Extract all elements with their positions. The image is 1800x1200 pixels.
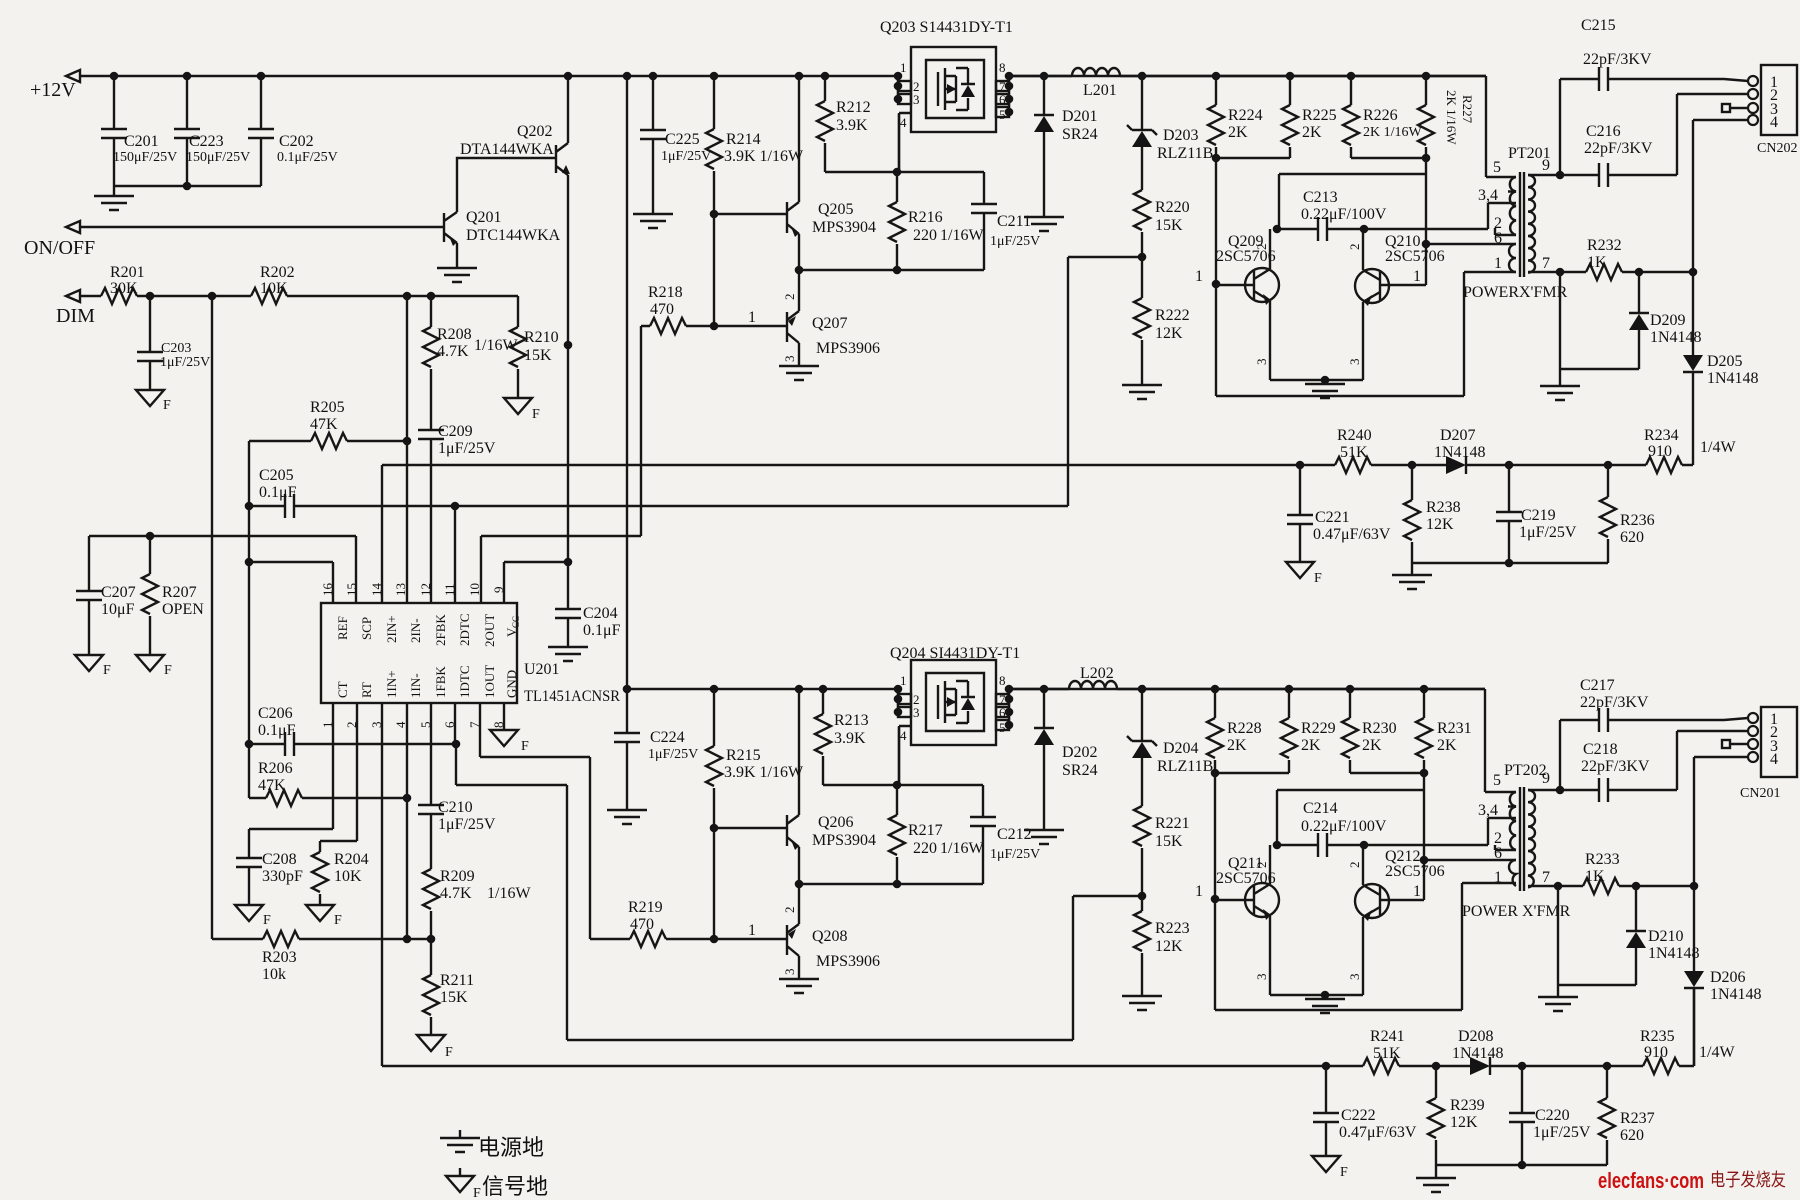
svg-text:3: 3: [1347, 974, 1362, 981]
wire CN201 pin4 chain: [1690, 757, 1748, 890]
svg-text:1μF/25V: 1μF/25V: [990, 234, 1040, 249]
svg-text:9: 9: [1542, 770, 1550, 787]
svg-text:1IN+: 1IN+: [384, 670, 399, 698]
svg-text:R204: R204: [334, 851, 369, 868]
svg-text:15: 15: [344, 583, 359, 596]
ground power (R239): [1416, 1178, 1456, 1192]
wire pin10 2OUT to R218: [481, 326, 641, 603]
svg-text:电源地: 电源地: [478, 1135, 544, 1160]
svg-text:4: 4: [393, 721, 408, 728]
svg-text:R236: R236: [1620, 512, 1655, 529]
resistor R239 12K: [1428, 1066, 1485, 1165]
svg-text:R223: R223: [1155, 920, 1190, 937]
wire R220/R222 node: [1138, 253, 1147, 262]
svg-text:R221: R221: [1155, 815, 1190, 832]
svg-text:1: 1: [900, 60, 907, 75]
svg-text:L201: L201: [1083, 82, 1117, 99]
svg-text:3: 3: [782, 969, 797, 976]
svg-text:1K: 1K: [1587, 254, 1607, 271]
diode D201 SR24: [1034, 76, 1098, 217]
svg-text:D203: D203: [1163, 127, 1199, 144]
transformer PT202: [1462, 689, 1571, 920]
svg-text:MPS3904: MPS3904: [812, 219, 876, 236]
svg-text:13: 13: [393, 583, 408, 596]
ground power (C225): [633, 214, 673, 228]
svg-text:12K: 12K: [1426, 516, 1454, 533]
svg-text:1/16W: 1/16W: [940, 227, 984, 244]
wire pin9 Vcc: [504, 558, 572, 603]
svg-text:C221: C221: [1315, 509, 1350, 526]
resistor R230 2K: [1342, 689, 1397, 773]
resistor R240 51K: [1335, 427, 1372, 473]
resistor R204 10K: [312, 851, 369, 905]
svg-text:C206: C206: [258, 705, 293, 722]
svg-text:22pF/3KV: 22pF/3KV: [1583, 51, 1652, 68]
svg-text:C211: C211: [997, 213, 1031, 230]
svg-text:1N4148: 1N4148: [1707, 370, 1759, 387]
resistor R210 15K: [510, 296, 559, 398]
wire R218 node to Q207 base: [714, 309, 787, 326]
ground power (C224): [607, 810, 647, 824]
svg-text:REF: REF: [335, 616, 350, 640]
resistor R217 220 1/16W: [889, 785, 984, 884]
transistor Q202 DTA144WKA: [460, 76, 570, 175]
svg-text:7: 7: [1542, 869, 1550, 886]
svg-text:12K: 12K: [1450, 1114, 1478, 1131]
svg-text:1N4148: 1N4148: [1452, 1045, 1504, 1062]
svg-text:22pF/3KV: 22pF/3KV: [1581, 758, 1650, 775]
ground signal F (C203): [136, 390, 171, 413]
svg-text:3: 3: [1347, 359, 1362, 366]
svg-text:R206: R206: [258, 760, 293, 777]
ground power (R222): [1122, 385, 1162, 399]
transistor Q208 MPS3906: [782, 884, 880, 979]
resistor R205 47K: [249, 399, 411, 449]
svg-text:POWER X'FMR: POWER X'FMR: [1462, 903, 1571, 920]
capacitor C218 22pF/3KV: [1560, 731, 1748, 802]
svg-text:1/16W: 1/16W: [487, 885, 531, 902]
svg-text:C208: C208: [262, 851, 297, 868]
transistor Q209 2SC5706: [1195, 229, 1279, 380]
capacitor C223: [174, 76, 250, 186]
svg-text:R229: R229: [1301, 720, 1336, 737]
svg-text:1: 1: [1494, 869, 1502, 886]
svg-text:2FBK: 2FBK: [433, 614, 448, 646]
svg-text:R205: R205: [310, 399, 345, 416]
resistor R207 OPEN: [142, 532, 204, 655]
svg-text:7: 7: [1542, 255, 1550, 272]
svg-text:D205: D205: [1707, 353, 1743, 370]
resistor R234 910 1/4W: [1644, 427, 1736, 473]
wire gate node (R212/R216/C211/pin4): [825, 114, 984, 204]
svg-text:R238: R238: [1426, 499, 1461, 516]
svg-text:1N4148: 1N4148: [1434, 444, 1486, 461]
svg-text:R237: R237: [1620, 1110, 1655, 1127]
svg-text:MPS3906: MPS3906: [816, 953, 880, 970]
svg-text:9: 9: [1542, 157, 1550, 174]
resistor R231 2K: [1416, 689, 1472, 773]
svg-text:1IN-: 1IN-: [408, 673, 423, 698]
svg-text:+12V: +12V: [30, 79, 76, 101]
svg-text:0.22μF/100V: 0.22μF/100V: [1301, 818, 1387, 835]
ground power (R223): [1122, 996, 1162, 1010]
resistor R233 1K: [1554, 851, 1694, 894]
svg-text:Q207: Q207: [812, 315, 848, 332]
svg-text:D208: D208: [1458, 1028, 1494, 1045]
ground power (D201): [1024, 217, 1064, 231]
diode D208 1N4148: [1452, 1028, 1504, 1075]
wire R221/R223 node: [1138, 892, 1147, 901]
capacitor C211 1uF/25V: [971, 204, 1040, 249]
svg-text:5: 5: [999, 107, 1006, 122]
svg-text:2SC5706: 2SC5706: [1216, 870, 1276, 887]
capacitor C224: [614, 689, 698, 810]
svg-text:1/4W: 1/4W: [1699, 1044, 1735, 1061]
svg-text:150μF/25V: 150μF/25V: [186, 150, 250, 165]
svg-text:6: 6: [1494, 230, 1502, 247]
resistor R202 10K: [251, 264, 295, 304]
wire +12V rail: [80, 72, 1486, 81]
svg-text:10k: 10k: [262, 966, 286, 983]
wire pin5 1FBK vertical: [430, 703, 432, 869]
svg-text:0.47μF/63V: 0.47μF/63V: [1339, 1124, 1417, 1141]
svg-text:470: 470: [630, 916, 654, 933]
wire pin1 CT to C208: [249, 703, 333, 858]
svg-text:Q204 SI4431DY-T1: Q204 SI4431DY-T1: [890, 645, 1020, 662]
ground signal F (C208): [235, 905, 271, 928]
svg-text:R234: R234: [1644, 427, 1679, 444]
wire cap bottoms to ground: [114, 182, 261, 196]
resistor R223 12K: [1134, 896, 1190, 996]
resistor R221 15K: [1134, 806, 1190, 896]
wire bottom feedback bus: [1322, 988, 1694, 1070]
svg-text:R217: R217: [908, 822, 943, 839]
svg-text:R207: R207: [162, 584, 197, 601]
capacitor C205 0.1uF (on 2DTC bus): [259, 467, 297, 518]
svg-text:R208: R208: [437, 326, 472, 343]
wire PT201 pin7 to ground: [1560, 272, 1639, 386]
wire 2IN- pin13 vertical: [406, 296, 408, 603]
svg-text:1: 1: [1195, 268, 1203, 285]
svg-text:SCP: SCP: [359, 617, 374, 640]
svg-text:2K: 2K: [1228, 124, 1248, 141]
resistor R211 15K: [423, 939, 474, 1035]
svg-text:R227: R227: [1460, 95, 1475, 124]
svg-text:1μF/25V: 1μF/25V: [648, 747, 698, 762]
svg-text:D206: D206: [1710, 969, 1746, 986]
capacitor C204 0.1uF: [555, 562, 621, 647]
resistor R226 2K 1/16W: [1343, 76, 1423, 158]
svg-text:3: 3: [913, 92, 920, 107]
resistor R227 2K 1/16W: [1418, 76, 1475, 158]
svg-text:C205: C205: [259, 467, 294, 484]
resistor R235 910 1/4W: [1640, 1028, 1735, 1074]
ground power (D202): [1024, 830, 1064, 844]
svg-text:TL1451ACNSR: TL1451ACNSR: [524, 688, 620, 705]
U201 pin numbers bottom: [320, 721, 506, 728]
svg-text:D207: D207: [1440, 427, 1476, 444]
resistor R216 220 1/16W: [889, 172, 984, 270]
ground signal F (R207): [136, 655, 172, 678]
wire PT202 pin7 to ground: [1558, 886, 1636, 997]
wire L202 to PT202 corner: [1117, 688, 1485, 690]
svg-text:51K: 51K: [1373, 1045, 1401, 1062]
resistor R212 3.9K: [817, 76, 871, 172]
svg-text:F: F: [263, 913, 271, 928]
svg-text:5: 5: [1493, 772, 1501, 789]
svg-text:D204: D204: [1163, 740, 1199, 757]
resistor R206 47K: [249, 760, 411, 806]
transistor Q203 SI4431DY-T1 (p-MOSFET module): [880, 19, 1013, 135]
capacitor C215 22pF/3KV: [1556, 17, 1748, 179]
ground power (C201/C223/C202): [94, 196, 134, 210]
svg-text:0.1μF: 0.1μF: [259, 484, 297, 501]
svg-text:C220: C220: [1535, 1107, 1570, 1124]
resistor R241 51K: [1363, 1028, 1405, 1074]
svg-text:2: 2: [1254, 862, 1269, 869]
svg-text:Q205: Q205: [818, 201, 854, 218]
capacitor C208 330pF: [236, 851, 303, 905]
wire R228/R229 bottoms: [1211, 769, 1289, 778]
resistor R228 2K: [1207, 689, 1262, 773]
U201 top pin labels: [335, 614, 521, 648]
svg-text:F: F: [1340, 1165, 1348, 1180]
svg-text:Q201: Q201: [466, 209, 502, 226]
svg-text:2SC5706: 2SC5706: [1385, 863, 1445, 880]
ground power (Q209/Q210 emitters): [1305, 384, 1345, 398]
svg-text:0.1μF/25V: 0.1μF/25V: [277, 150, 338, 165]
svg-text:C215: C215: [1581, 17, 1616, 34]
svg-text:1μF/25V: 1μF/25V: [438, 816, 496, 833]
svg-text:3,4: 3,4: [1478, 187, 1498, 204]
diode D206 1N4148: [1684, 886, 1762, 1066]
svg-text:4: 4: [900, 115, 907, 130]
svg-text:DTA144WKA: DTA144WKA: [460, 141, 554, 158]
svg-text:1: 1: [748, 309, 756, 326]
resistor R236 620: [1600, 465, 1655, 563]
svg-text:F: F: [163, 398, 171, 413]
svg-text:C225: C225: [665, 131, 700, 148]
wire Q204 pin4 gate lead: [898, 748, 900, 785]
svg-text:R226: R226: [1363, 107, 1398, 124]
svg-text:D209: D209: [1650, 312, 1686, 329]
svg-text:0.47μF/63V: 0.47μF/63V: [1313, 526, 1391, 543]
svg-text:2IN-: 2IN-: [408, 618, 423, 643]
svg-text:GND: GND: [504, 670, 519, 698]
svg-text:R213: R213: [834, 712, 869, 729]
resistor R208 4.7K 1/16W: [423, 296, 518, 430]
svg-text:C214: C214: [1303, 800, 1338, 817]
transistor Q212 2SC5706: [1347, 845, 1445, 995]
resistor R201 30K: [80, 264, 150, 304]
svg-text:150μF/25V: 150μF/25V: [113, 150, 177, 165]
svg-text:2IN+: 2IN+: [384, 615, 399, 643]
svg-text:10: 10: [467, 583, 482, 596]
svg-text:1/4W: 1/4W: [1700, 439, 1736, 456]
wire 1IN- pin4 vertical: [403, 703, 412, 943]
wire lower channel rail: [623, 685, 1485, 694]
svg-text:3.9K: 3.9K: [834, 730, 866, 747]
svg-text:1μF/25V: 1μF/25V: [160, 355, 210, 370]
svg-text:15K: 15K: [524, 347, 552, 364]
svg-text:R212: R212: [836, 99, 871, 116]
svg-text:DIM: DIM: [56, 305, 95, 327]
svg-text:12: 12: [418, 583, 433, 596]
svg-text:elecfans·com: elecfans·com: [1598, 1168, 1704, 1193]
svg-text:8: 8: [999, 60, 1006, 75]
svg-text:C216: C216: [1586, 123, 1621, 140]
svg-text:POWERX'FMR: POWERX'FMR: [1463, 284, 1568, 301]
node DIM input arrow: [56, 290, 95, 327]
svg-text:R232: R232: [1587, 237, 1622, 254]
wire Q211 base chain to PT202 pin1: [1211, 773, 1516, 1010]
transformer PT201: [1463, 76, 1568, 301]
svg-text:910: 910: [1648, 443, 1672, 460]
svg-text:MPS3906: MPS3906: [816, 340, 880, 357]
svg-text:R228: R228: [1227, 720, 1262, 737]
capacitor C214 0.22uF/100V: [1273, 800, 1516, 857]
resistor R219 470: [590, 899, 714, 947]
resistor R224 2K: [1208, 76, 1263, 158]
svg-text:22pF/3KV: 22pF/3KV: [1580, 694, 1649, 711]
transistor Q205 MPS3904: [787, 76, 876, 270]
wire pin7 1OUT to R219: [480, 703, 590, 939]
svg-text:2K: 2K: [1227, 737, 1247, 754]
connector CN202: [1748, 65, 1797, 156]
svg-text:R215: R215: [726, 747, 761, 764]
wire R238/C219/R236 bottoms: [1412, 559, 1608, 575]
resistor R220 15K: [1134, 190, 1190, 257]
inductor L201: [1072, 68, 1120, 99]
svg-text:C209: C209: [438, 423, 473, 440]
wire Q211/Q212 emitter loop: [1270, 991, 1363, 1000]
wire R214 bottom node to Q205 base: [710, 210, 787, 331]
legend power ground symbol: [440, 1130, 544, 1160]
svg-text:R210: R210: [524, 329, 559, 346]
svg-text:CT: CT: [335, 681, 350, 698]
svg-text:C204: C204: [583, 605, 618, 622]
svg-text:3.9K 1/16W: 3.9K 1/16W: [724, 148, 804, 165]
svg-text:CC: CC: [511, 616, 521, 628]
wire ON/OFF to Q201 base: [80, 226, 444, 228]
svg-text:OPEN: OPEN: [162, 601, 204, 618]
svg-text:2SC5706: 2SC5706: [1385, 248, 1445, 265]
svg-text:F: F: [521, 739, 529, 754]
wire R219 node to Q208 base: [714, 922, 787, 939]
svg-text:4: 4: [1770, 751, 1778, 768]
ground power (PT201 pin7): [1540, 386, 1580, 400]
resistor R232 1K: [1556, 237, 1693, 280]
resistor R225 2K: [1282, 76, 1337, 158]
svg-text:1N4148: 1N4148: [1710, 986, 1762, 1003]
svg-text:10K: 10K: [260, 280, 288, 297]
svg-text:R202: R202: [260, 264, 295, 281]
capacitor C212 1uF/25V: [970, 817, 1040, 862]
svg-text:0.22μF/100V: 0.22μF/100V: [1301, 206, 1387, 223]
svg-text:R216: R216: [908, 209, 943, 226]
wire +12V to lower channel vertical: [626, 76, 628, 689]
svg-text:1DTC: 1DTC: [457, 666, 472, 699]
svg-text:1: 1: [1413, 883, 1421, 900]
svg-text:C217: C217: [1580, 677, 1615, 694]
svg-text:R211: R211: [440, 972, 474, 989]
transistor Q206 MPS3904: [787, 689, 876, 884]
svg-text:RT: RT: [359, 682, 374, 698]
ground power (Q207): [779, 366, 819, 380]
svg-text:RLZ11B: RLZ11B: [1157, 145, 1213, 162]
svg-text:电子发烧友: 电子发烧友: [1710, 1170, 1786, 1190]
svg-text:1OUT: 1OUT: [482, 665, 497, 698]
wire Q212 base chain: [1277, 773, 1516, 900]
svg-text:C218: C218: [1583, 741, 1618, 758]
ground power (Q208): [779, 979, 819, 993]
wire Q209/Q210 emitter loop: [1270, 376, 1363, 385]
svg-text:R220: R220: [1155, 199, 1190, 216]
legend signal ground symbol: [446, 1168, 548, 1200]
diode D209 1N4148: [1629, 272, 1702, 369]
diode D207 1N4148: [1434, 427, 1486, 474]
wire CN201 pin3 stub: [1722, 740, 1748, 748]
wire Q210 base chain: [1279, 158, 1516, 285]
svg-text:R224: R224: [1228, 107, 1263, 124]
svg-text:22pF/3KV: 22pF/3KV: [1584, 140, 1653, 157]
svg-text:R201: R201: [110, 264, 145, 281]
transistor Q211 2SC5706: [1195, 845, 1279, 995]
svg-text:2K: 2K: [1437, 737, 1457, 754]
svg-text:C201: C201: [124, 133, 159, 150]
ground power (Q201 emitter): [437, 268, 477, 282]
svg-text:2OUT: 2OUT: [482, 614, 497, 647]
wire R226/R227 bottoms: [1351, 154, 1430, 163]
wire CN202 pin3 stub: [1722, 104, 1748, 112]
svg-text:F: F: [532, 407, 540, 422]
resistor R213 3.9K: [815, 689, 869, 785]
ground power (PT202 pin7): [1538, 997, 1578, 1011]
svg-text:2: 2: [1254, 244, 1269, 251]
capacitor C209: [418, 423, 496, 603]
svg-text:15K: 15K: [1155, 833, 1183, 850]
svg-text:12K: 12K: [1155, 325, 1183, 342]
svg-text:1: 1: [1494, 255, 1502, 272]
wire Q209 base chain to PT201 pin1: [1212, 158, 1516, 396]
svg-text:R218: R218: [648, 284, 683, 301]
svg-text:1K: 1K: [1585, 868, 1605, 885]
svg-text:R235: R235: [1640, 1028, 1675, 1045]
svg-text:F: F: [164, 663, 172, 678]
wire pin3 1IN+ to bottom bus: [382, 703, 1326, 1066]
ground signal F (U201 pin8): [490, 730, 529, 754]
diode D203 RLZ11B (zener): [1127, 76, 1213, 190]
capacitor C219 1uF/25V: [1496, 465, 1577, 563]
wire bus A 2IN+ feedback: [382, 461, 1693, 603]
svg-text:12K: 12K: [1155, 938, 1183, 955]
wire bus B 2DTC: [249, 257, 1142, 510]
wire Q205 emitter node: [795, 238, 984, 274]
svg-text:Q203 S14431DY-T1: Q203 S14431DY-T1: [880, 19, 1013, 36]
inductor L202: [1069, 665, 1117, 689]
svg-text:2: 2: [1347, 862, 1362, 869]
watermark elecfans: [1598, 1168, 1786, 1193]
ground signal F (R210): [504, 398, 540, 422]
wire pin8 GND stub: [503, 703, 505, 730]
ground signal F (R204): [306, 905, 342, 928]
svg-text:R231: R231: [1437, 720, 1472, 737]
wire gate node (R213/R217/C212/pin4): [823, 727, 983, 817]
svg-text:C212: C212: [997, 826, 1032, 843]
svg-text:4: 4: [1770, 114, 1778, 131]
svg-text:10K: 10K: [334, 868, 362, 885]
svg-text:1μF/25V: 1μF/25V: [438, 440, 496, 457]
